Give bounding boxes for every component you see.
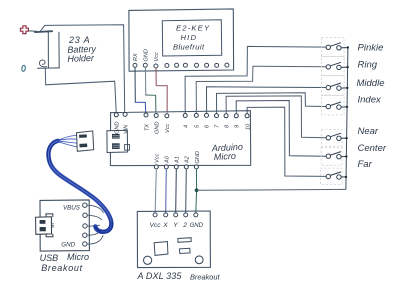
svg-text:Vcc: Vcc bbox=[155, 153, 161, 163]
svg-text:GND: GND bbox=[144, 49, 150, 61]
svg-text:Far: Far bbox=[358, 159, 373, 170]
svg-text:Breakout: Breakout bbox=[41, 263, 83, 273]
svg-text:Center: Center bbox=[358, 143, 387, 154]
svg-text:Holder: Holder bbox=[67, 53, 95, 64]
svg-text:A0: A0 bbox=[165, 155, 171, 164]
svg-text:Vcc: Vcc bbox=[154, 52, 160, 62]
svg-text:HID: HID bbox=[181, 33, 198, 42]
svg-text:Micro: Micro bbox=[214, 151, 236, 162]
svg-text:TX: TX bbox=[144, 124, 150, 131]
svg-text:Vcc: Vcc bbox=[150, 222, 162, 229]
svg-text:Bluefruit: Bluefruit bbox=[173, 43, 205, 52]
svg-text:A DXL 335: A DXL 335 bbox=[137, 271, 183, 281]
svg-text:4: 4 bbox=[183, 125, 189, 128]
svg-text:2: 2 bbox=[182, 222, 187, 229]
svg-text:X: X bbox=[162, 222, 168, 229]
svg-text:Breakout: Breakout bbox=[190, 273, 221, 282]
svg-text:VBUS: VBUS bbox=[63, 205, 81, 212]
svg-text:RX: RX bbox=[133, 53, 139, 61]
svg-text:GND: GND bbox=[61, 242, 75, 249]
svg-text:E2-KEY: E2-KEY bbox=[176, 24, 210, 33]
svg-text:9: 9 bbox=[235, 125, 241, 128]
svg-text:GND: GND bbox=[115, 122, 121, 134]
svg-text:GND: GND bbox=[195, 151, 201, 163]
svg-text:10: 10 bbox=[245, 123, 251, 130]
svg-text:Near: Near bbox=[358, 126, 379, 137]
svg-text:GND: GND bbox=[155, 122, 161, 134]
svg-text:Middle: Middle bbox=[357, 78, 385, 89]
svg-text:VIN: VIN bbox=[123, 124, 129, 134]
svg-text:Pinkie: Pinkie bbox=[358, 42, 384, 53]
svg-text:Vcc: Vcc bbox=[165, 123, 171, 133]
svg-text:USB: USB bbox=[40, 253, 59, 263]
svg-text:A2: A2 bbox=[185, 155, 191, 164]
svg-text:Y: Y bbox=[173, 222, 178, 229]
svg-text:Micro: Micro bbox=[67, 252, 89, 262]
svg-text:Index: Index bbox=[358, 95, 382, 106]
svg-text:Ring: Ring bbox=[358, 60, 378, 71]
svg-text:GND: GND bbox=[190, 223, 204, 229]
svg-text:A1: A1 bbox=[175, 156, 181, 164]
